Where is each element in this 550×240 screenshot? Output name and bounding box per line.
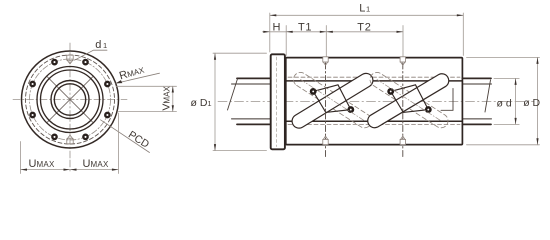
dimension d extension top: [494, 77, 519, 79]
dimension L1 extension left: [269, 13, 271, 52]
dimension D1 extension top: [213, 52, 267, 54]
shaft right root top: [462, 83, 491, 85]
shaft right root bottom: [462, 118, 491, 120]
Umax extension left: [20, 142, 22, 174]
circuit 2: tube axis B: [377, 80, 441, 121]
L1 arrow right: [457, 14, 464, 16]
shaft left root top: [232, 83, 271, 85]
PCD circle: [30, 59, 111, 140]
flange: [271, 54, 285, 149]
Vmax extension top: [116, 85, 177, 87]
station 1 centerline: [325, 63, 327, 158]
bolt hole 4: [30, 82, 34, 86]
svg-text:1: 1: [103, 41, 107, 50]
extension T2 right: [402, 26, 404, 57]
svg-text:ø D1: ø D1: [191, 97, 212, 109]
circuit 1: crossing band: [313, 85, 351, 113]
svg-text:d: d: [95, 39, 101, 51]
shaft right outer top: [462, 77, 491, 79]
shaft edge inside nut bottom: [286, 120, 462, 122]
right recess bracket: [441, 89, 453, 111]
bolt hole 6: [52, 135, 56, 139]
nut hidden crest line bottom: [288, 124, 460, 126]
circuit 1: return tube hidden capsule: [293, 72, 371, 127]
horizontal centerline: [13, 99, 127, 101]
Umax arrow right: [112, 169, 119, 171]
diagonal cross line 2: [47, 76, 94, 123]
dimension D1 line: [214, 53, 216, 150]
bolt hole 1: [105, 82, 109, 86]
svg-text:T2: T2: [357, 21, 371, 33]
top oil hole d1: [67, 55, 73, 64]
T2 arrow left: [326, 31, 333, 33]
svg-text:1: 1: [366, 4, 370, 13]
circuit 2: return tube hidden capsule: [370, 72, 448, 127]
vertical centerline: [69, 43, 71, 160]
circuit 1: front capsule: [292, 73, 373, 128]
nut hidden crest line top: [288, 76, 460, 78]
svg-text:UMAX: UMAX: [29, 158, 56, 170]
dimension d line: [515, 78, 517, 124]
dimension H/T1/T2 line: [263, 31, 404, 33]
nut body: [286, 58, 463, 145]
shaft left root bottom: [232, 118, 271, 120]
Rmax leader: [116, 73, 160, 83]
T1 arrow right: [320, 31, 327, 33]
svg-text:L: L: [359, 2, 365, 14]
Vmax arrow down: [172, 105, 174, 111]
nut body circle: [37, 67, 103, 133]
circuit 1: ball A: [311, 89, 315, 93]
bolt hole 2: [83, 60, 87, 64]
D1 arrow down: [214, 144, 216, 151]
Umax dimension line: [21, 169, 119, 171]
Vmax dimension line: [172, 86, 174, 111]
circuit 1: tube axis B: [301, 80, 365, 121]
dimension d extension bottom: [494, 123, 519, 125]
hidden circle (chamfer): [26, 55, 115, 144]
bolt hole 8: [105, 113, 109, 117]
label d1 leader: [75, 50, 108, 60]
dimension D line: [537, 57, 539, 144]
svg-text:T1: T1: [298, 21, 312, 33]
circuit 2: ball A: [389, 89, 393, 93]
dimension L1 extension right: [462, 13, 464, 56]
svg-text:ø D: ø D: [523, 97, 540, 109]
svg-text:VMAX: VMAX: [160, 86, 172, 111]
bore circle outer: [51, 81, 89, 119]
nut boss circle: [41, 70, 100, 129]
dimension D1 extension bottom: [213, 150, 267, 152]
grease hole bottom 1: [323, 136, 328, 144]
D arrow up: [536, 57, 538, 64]
extension H right: [285, 26, 287, 56]
svg-text:H: H: [273, 21, 281, 33]
Vmax arrow up: [172, 86, 174, 92]
circuit 1: ball B: [349, 107, 353, 111]
grease hole bottom 2: [400, 136, 405, 144]
svg-text:ø d: ø d: [497, 97, 512, 109]
dimension D extension top: [467, 56, 540, 58]
shaft left outer top: [237, 77, 270, 79]
D1 arrow up: [214, 53, 216, 60]
svg-text:UMAX: UMAX: [83, 158, 110, 170]
H arrow right / T1 arrow left: [286, 31, 293, 33]
grease hole top 1: [323, 57, 328, 66]
bottom oil hole: [67, 135, 73, 144]
circuit 2: ball B: [426, 107, 430, 111]
diagonal cross line 1: [47, 76, 94, 123]
station 2 centerline: [402, 63, 404, 158]
circuit 2: front capsule: [368, 74, 449, 128]
Rmax arrowhead: [116, 80, 123, 83]
shaft edge inside nut top: [286, 80, 462, 82]
extension T1 right: [325, 26, 327, 57]
bolt hole 3: [52, 60, 56, 64]
PCD leader: [101, 120, 150, 153]
circuit 2: crossing band: [391, 85, 429, 113]
dimension D extension bottom: [467, 144, 540, 146]
grease hole top 2: [400, 57, 405, 66]
shaft left thread cut line: [228, 79, 238, 110]
Vmax extension bottom: [119, 111, 177, 113]
flange hidden line: [275, 57, 277, 147]
bore circle inner: [54, 84, 85, 115]
Umax arrow left: [21, 169, 28, 171]
dimension L1 line: [270, 14, 464, 16]
bolt hole 5: [30, 113, 34, 117]
main centerline: [218, 101, 534, 103]
d arrow up: [515, 78, 517, 85]
flange outer circle: [22, 51, 119, 148]
T2 arrow right: [397, 31, 404, 33]
bolt hole 7: [83, 135, 87, 139]
L1 arrow left: [270, 14, 277, 16]
D arrow down: [536, 138, 538, 145]
Umax centerline extension: [69, 160, 71, 174]
H arrow left (outside): [263, 31, 270, 33]
d arrow down: [515, 118, 517, 125]
shaft right outer bottom: [462, 123, 491, 125]
shaft left outer bottom: [237, 123, 270, 125]
Umax extension right: [117, 113, 119, 174]
shaft right thread cut line: [485, 80, 491, 112]
Umax arrows center: [64, 169, 71, 171]
